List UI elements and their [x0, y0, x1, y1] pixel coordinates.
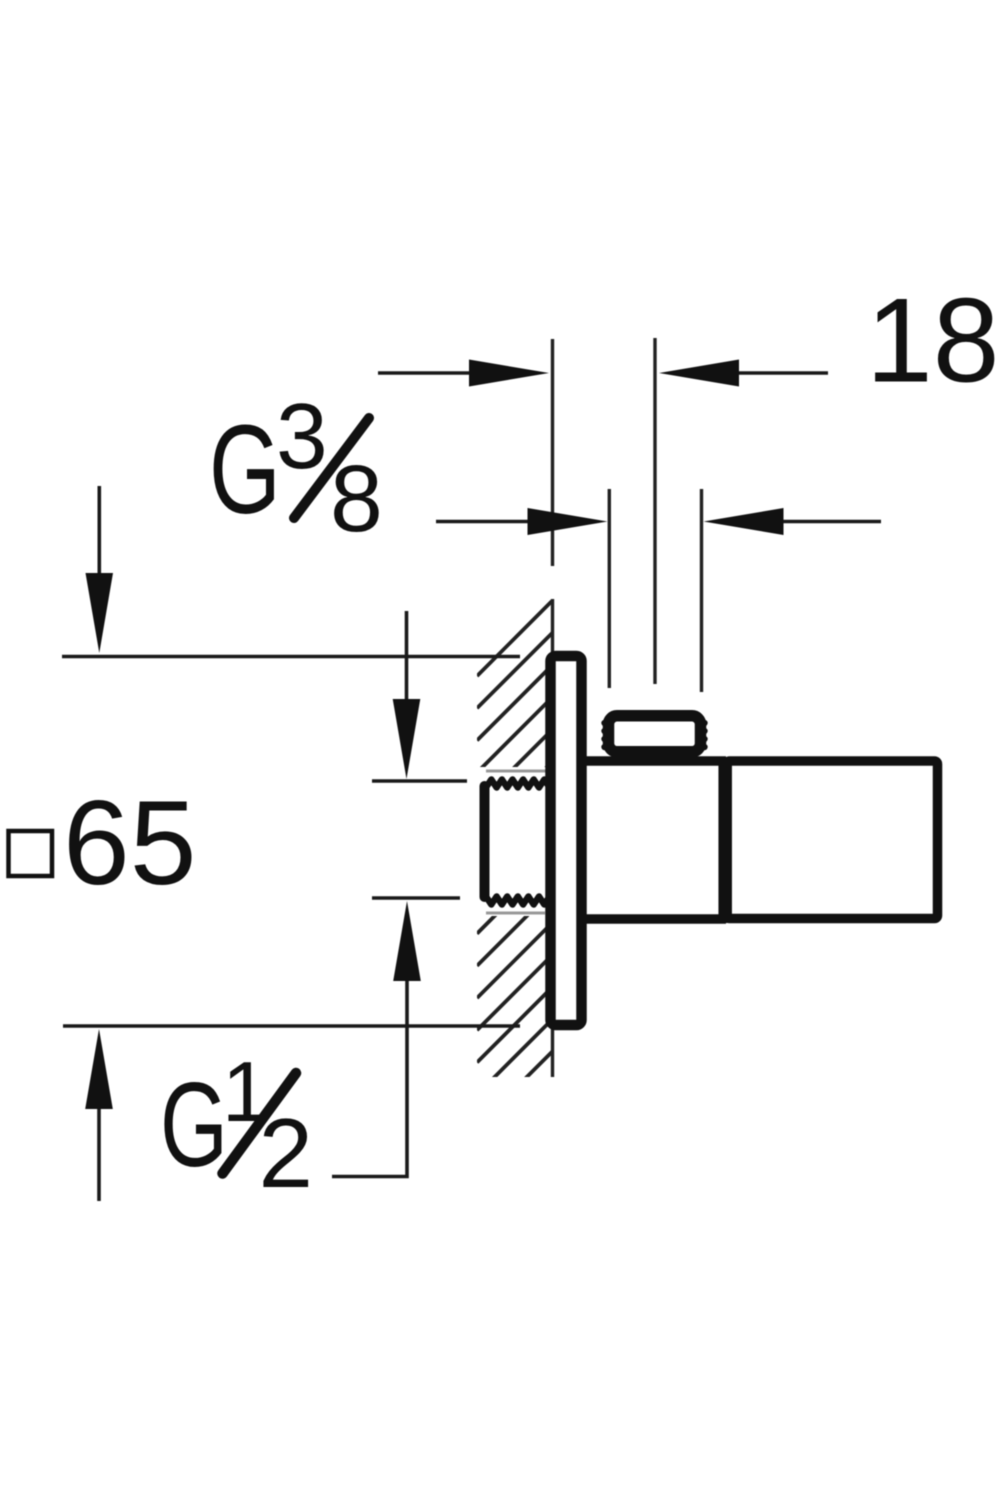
svg-text:8: 8	[330, 446, 383, 552]
valve handle (knurled nut)	[609, 716, 701, 752]
pipe thread zigzag bottom	[486, 897, 550, 905]
valve body section 2	[727, 761, 938, 919]
G1/2 top arrowhead	[393, 699, 421, 779]
escutcheon plate	[551, 656, 582, 1025]
pipe body white	[482, 780, 553, 900]
valve body section 1 bottom edge	[585, 914, 726, 924]
extension line wall face	[551, 339, 554, 566]
pipe thread zigzag top	[486, 780, 550, 788]
dimension G3/8 left shaft	[436, 520, 535, 524]
box65 bottom arrow shaft	[97, 1105, 101, 1201]
box65 extension top	[62, 655, 520, 658]
wall face eraser around pipe	[455, 767, 553, 916]
extension line G3/8 left	[608, 489, 611, 688]
label G3/8 slash	[294, 418, 369, 518]
box65 top arrow shaft	[98, 486, 102, 580]
wall hatching	[477, 600, 553, 1159]
dimension G3/8 right arrowhead	[704, 508, 784, 535]
box65 extension bottom	[63, 1024, 520, 1027]
dimension 18 left arrowhead	[469, 360, 549, 387]
extension line G3/8 right	[700, 489, 703, 692]
svg-text:2: 2	[259, 1098, 314, 1208]
handle knurl right	[701, 720, 707, 750]
box65 bottom arrowhead	[85, 1029, 113, 1109]
box65 top arrowhead	[86, 573, 114, 653]
valve body separator	[718, 757, 732, 923]
wall face line lower	[551, 1028, 554, 1077]
dimension 18 left shaft	[378, 371, 480, 375]
extension line valve axis	[653, 338, 656, 684]
dimension 18 right arrowhead	[659, 360, 739, 387]
pipe left edge	[480, 786, 490, 897]
dimension 18 right shaft	[737, 371, 828, 375]
dimension G3/8 left arrowhead	[528, 508, 608, 535]
G1/2 extension bottom	[372, 896, 460, 899]
svg-text:G: G	[209, 400, 281, 540]
label box square	[9, 831, 53, 876]
svg-text:18: 18	[866, 274, 999, 408]
label G1/2 slash	[223, 1073, 297, 1174]
G1/2 bottom arrowhead	[393, 901, 421, 981]
G1/2 bottom arrow shaft and leader	[332, 975, 407, 1177]
pipe G1/2 thread gray relief bottom	[486, 912, 545, 915]
G1/2 extension top	[372, 779, 467, 782]
wall face line upper	[551, 599, 554, 654]
handle knurl left	[601, 720, 607, 750]
svg-text:65: 65	[63, 776, 196, 910]
svg-text:3: 3	[276, 384, 328, 488]
valve body section 1 top edge	[585, 756, 726, 766]
pipe G1/2 thread gray relief top	[486, 770, 546, 773]
dimension G3/8 right shaft	[780, 520, 881, 524]
G1/2 top arrow shaft	[405, 611, 409, 706]
valve body section 1 fill	[587, 765, 726, 915]
